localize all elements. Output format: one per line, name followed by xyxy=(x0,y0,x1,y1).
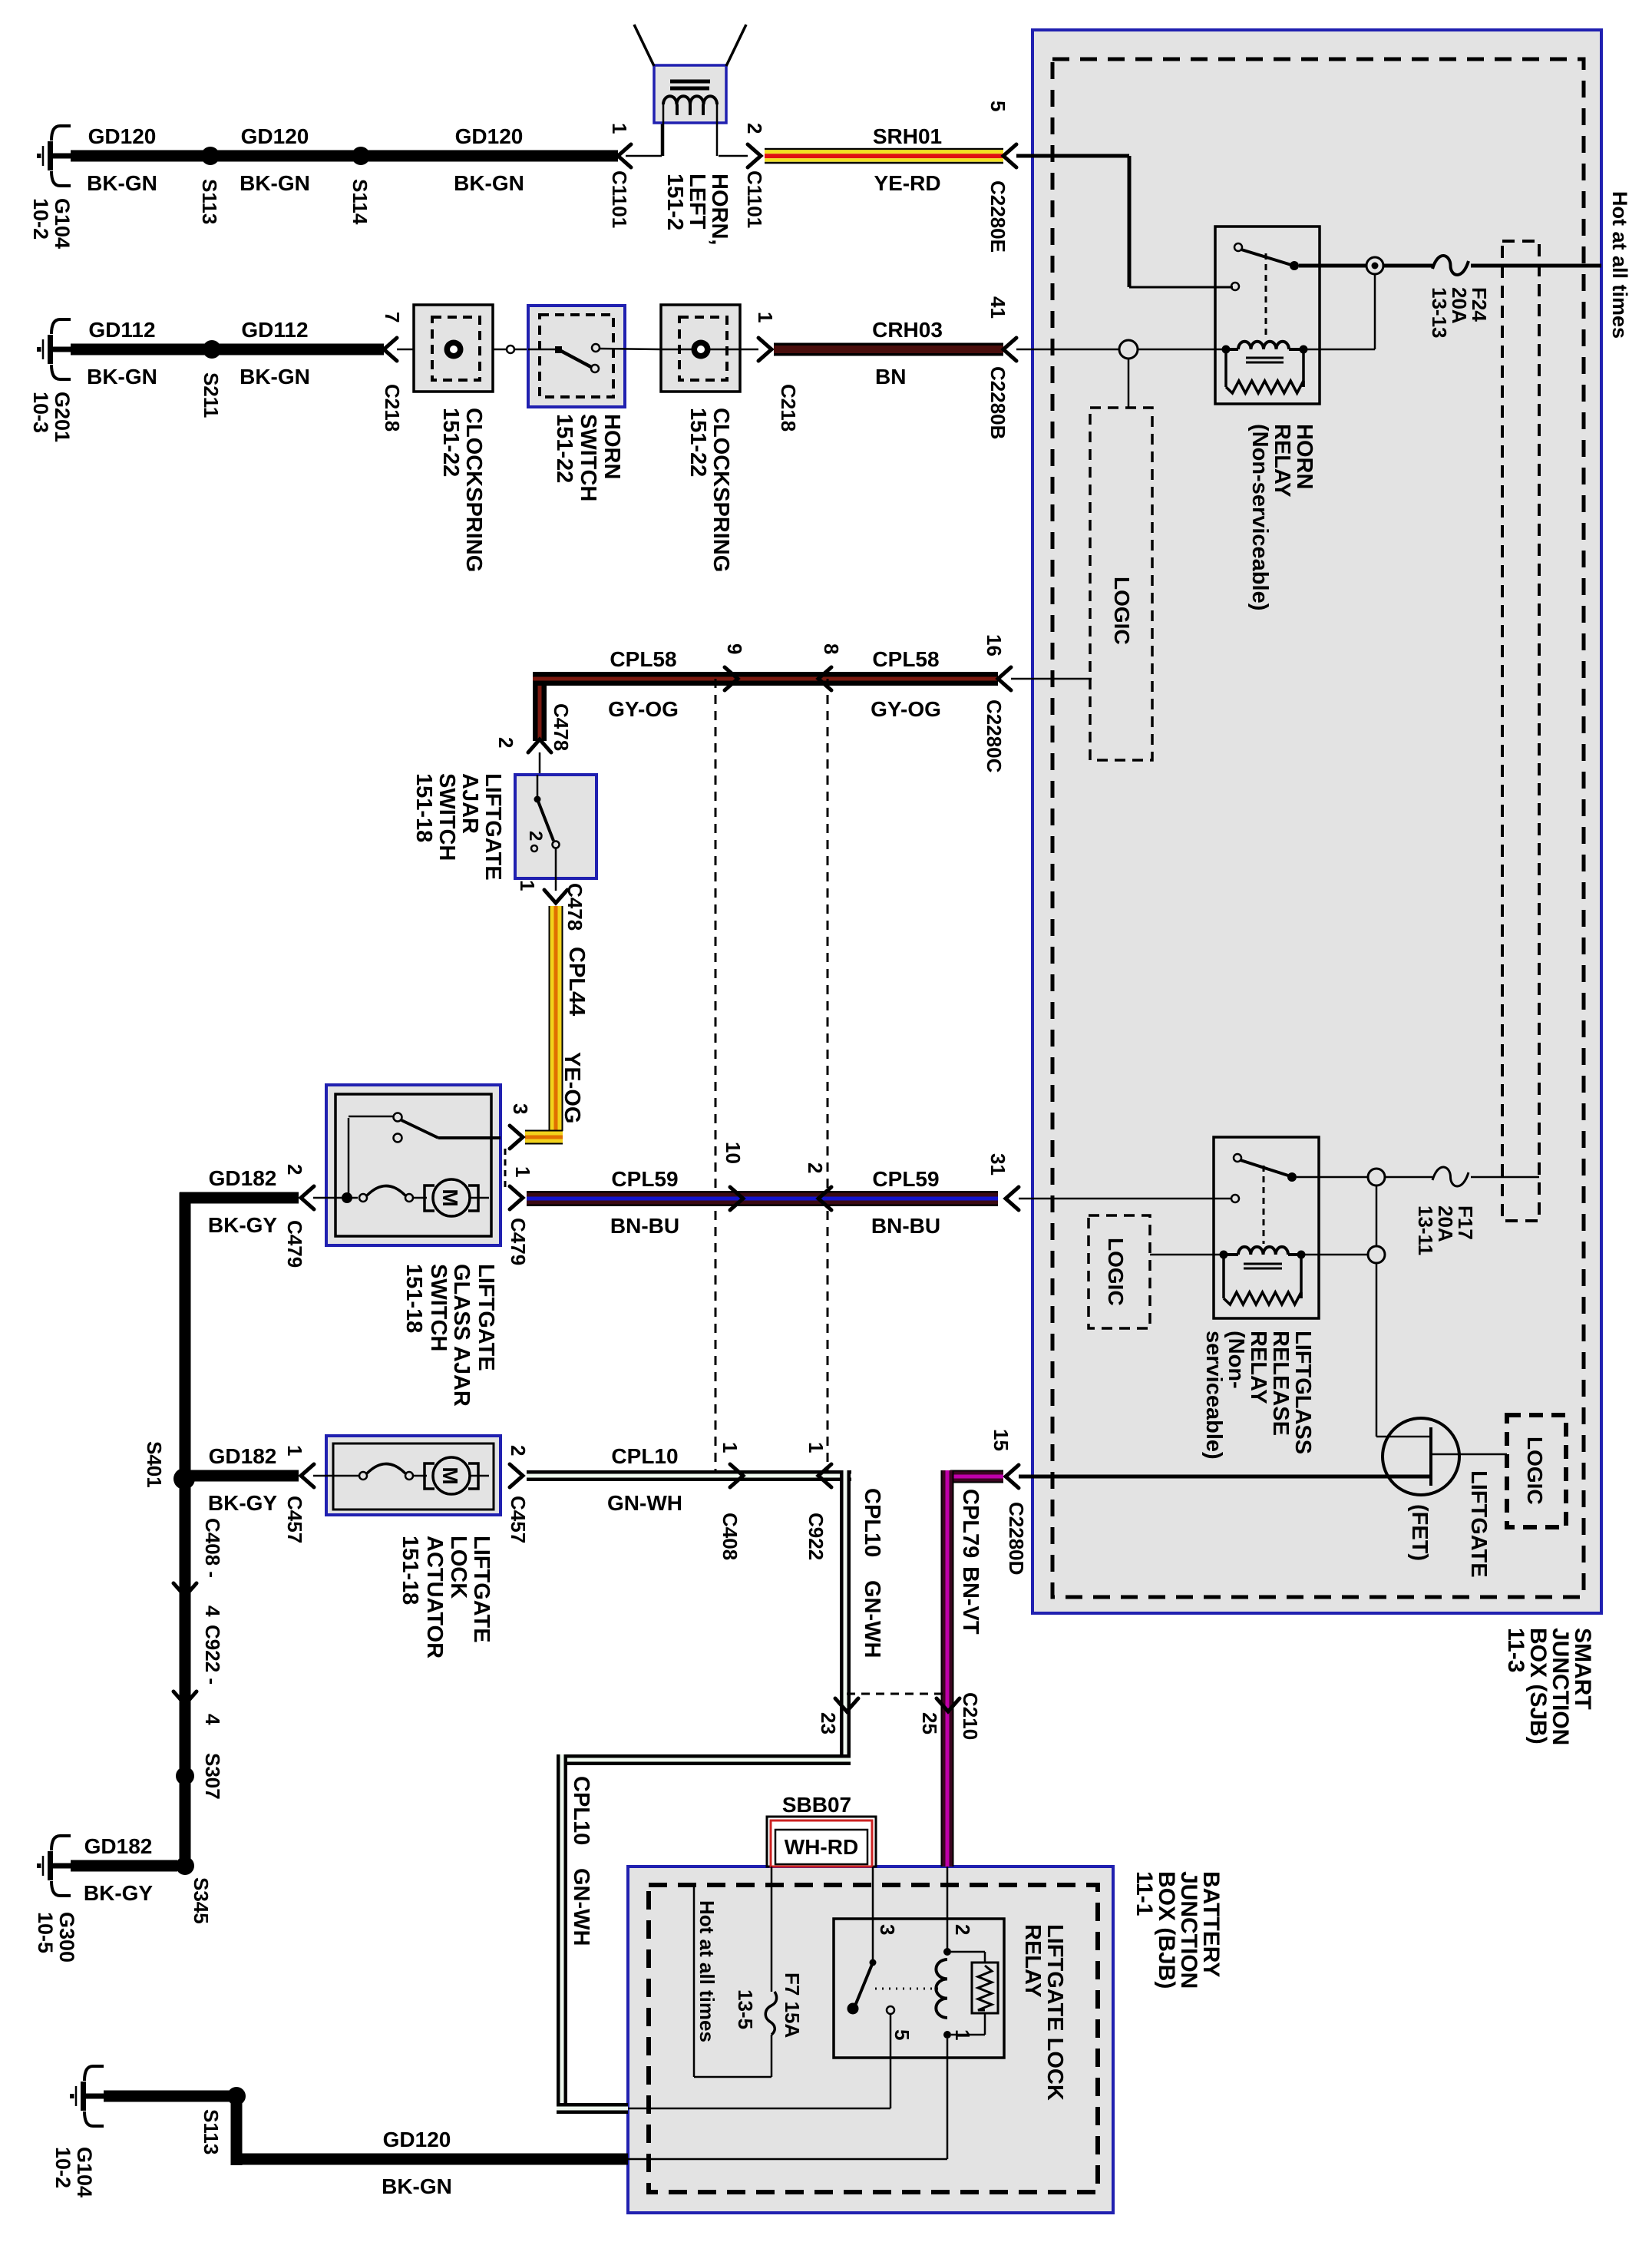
svg-text:9: 9 xyxy=(723,643,746,654)
wire CPL58 GY-OG segment 1 xyxy=(533,672,538,741)
svg-text:S113: S113 xyxy=(200,2109,223,2154)
svg-text:GD182: GD182 xyxy=(209,1444,277,1468)
svg-text:LOGIC: LOGIC xyxy=(1523,1437,1547,1505)
liftgate lock relay box xyxy=(834,1919,1004,2058)
svg-text:2: 2 xyxy=(283,1164,306,1175)
connector C2280 pin 31 xyxy=(1006,1187,1019,1210)
LOGIC box (FET) xyxy=(1507,1415,1566,1527)
svg-text:SRH01: SRH01 xyxy=(873,124,942,148)
Smart Junction Box (SJB) outline xyxy=(1032,30,1601,1613)
splice S113 (bottom) xyxy=(227,2087,246,2105)
svg-text:5: 5 xyxy=(986,101,1009,111)
svg-text:G201: G201 xyxy=(51,392,74,442)
svg-text:13-13: 13-13 xyxy=(1428,287,1451,339)
svg-text:1: 1 xyxy=(283,1445,306,1456)
svg-text:2: 2 xyxy=(951,1924,974,1935)
svg-text:CPL58: CPL58 xyxy=(610,647,676,671)
svg-text:S211: S211 xyxy=(200,372,223,418)
wire SRH01 YE-RD xyxy=(765,148,1003,150)
svg-text:2: 2 xyxy=(743,123,766,134)
wire GD182 BK-GY (liftglass) xyxy=(190,1192,299,1204)
liftglass release relay (non-serviceable) xyxy=(1214,1137,1319,1318)
svg-text:5: 5 xyxy=(890,2029,914,2040)
svg-text:Hot at all times: Hot at all times xyxy=(695,1900,719,2042)
svg-text:CPL10: CPL10 xyxy=(569,1776,593,1845)
svg-text:S345: S345 xyxy=(190,1877,213,1924)
svg-text:BK-GN: BK-GN xyxy=(382,2174,452,2198)
svg-text:15: 15 xyxy=(990,1429,1013,1451)
svg-text:GD120: GD120 xyxy=(383,2128,451,2151)
connector C2280E pin 5 xyxy=(1003,144,1016,167)
ground G104 (bottom) xyxy=(70,2066,104,2126)
svg-text:C457: C457 xyxy=(507,1496,530,1543)
svg-text:C457: C457 xyxy=(283,1496,306,1543)
connector C218 pin 1 xyxy=(758,338,771,361)
svg-text:S307: S307 xyxy=(201,1753,224,1800)
svg-text:RELAY: RELAY xyxy=(1270,424,1294,498)
svg-text:BK-GN: BK-GN xyxy=(240,365,310,389)
SJB inner dashed border xyxy=(1052,59,1584,1597)
svg-text:RELEASE: RELEASE xyxy=(1268,1331,1293,1436)
splice S114 xyxy=(352,147,370,165)
svg-text:(FET): (FET) xyxy=(1407,1504,1432,1561)
svg-text:1: 1 xyxy=(805,1442,828,1453)
connector C922 pin 4 (chain) xyxy=(173,1691,197,1705)
connector C479 pin 2 xyxy=(301,1186,314,1209)
svg-text:CLOCKSPRING: CLOCKSPRING xyxy=(709,408,733,572)
svg-text:LEFT: LEFT xyxy=(685,174,709,230)
svg-text:RELAY: RELAY xyxy=(1020,1924,1045,1998)
bullseye node xyxy=(1366,257,1383,274)
ground G104 (top left) xyxy=(37,126,71,186)
dashed connector line C922 xyxy=(827,679,829,1476)
svg-text:G104: G104 xyxy=(51,198,74,249)
svg-text:GN-WH: GN-WH xyxy=(569,1868,593,1946)
connector C479 pin 3 xyxy=(510,1126,523,1149)
wire into SJB to horn relay coil xyxy=(1016,349,1119,351)
BJB inner dashed border xyxy=(649,1885,1098,2192)
svg-text:(Non-serviceable): (Non-serviceable) xyxy=(1247,424,1272,610)
wire pin 1 to GD120 ground xyxy=(947,2039,949,2159)
svg-text:4: 4 xyxy=(201,1714,224,1725)
svg-text:151-2: 151-2 xyxy=(662,174,687,230)
svg-text:CPL44: CPL44 xyxy=(564,947,589,1016)
wire fuse to Hot at all times xyxy=(1471,264,1601,268)
wire GD120 BK-GN to BJB xyxy=(231,2091,243,2165)
svg-text:BN-BU: BN-BU xyxy=(610,1214,679,1238)
liftgate ajar switch 151-18 xyxy=(515,775,596,878)
svg-text:C408: C408 xyxy=(719,1513,742,1560)
fuse F17 20A 13-11 xyxy=(1432,1167,1469,1186)
svg-text:C2280D: C2280D xyxy=(1005,1502,1028,1575)
svg-text:GLASS AJAR: GLASS AJAR xyxy=(449,1264,474,1407)
SJB tall dashed rectangle xyxy=(1502,241,1539,1221)
svg-text:C2280E: C2280E xyxy=(986,180,1009,253)
wire into SJB to horn relay xyxy=(1016,154,1129,158)
svg-text:HORN: HORN xyxy=(1292,424,1317,489)
connector C2280D pin 15 xyxy=(1006,1465,1019,1488)
svg-text:BK-GY: BK-GY xyxy=(208,1213,278,1237)
svg-text:G300: G300 xyxy=(55,1912,78,1963)
svg-text:AJAR: AJAR xyxy=(458,773,482,834)
connector C1101 pin 2 xyxy=(748,144,761,167)
LOGIC box (liftglass) xyxy=(1089,1215,1150,1328)
junction circle xyxy=(507,346,514,353)
wire CRH03 BN xyxy=(774,343,1003,346)
clockspring 151-22 (left) xyxy=(414,305,493,392)
wire CPL79 BN-VT xyxy=(950,1470,1003,1472)
svg-text:LIFTGATE: LIFTGATE xyxy=(1466,1470,1491,1578)
connector C1101 pin 1 xyxy=(618,144,631,167)
svg-text:M: M xyxy=(438,1189,462,1206)
svg-text:Hot at all times: Hot at all times xyxy=(1608,191,1631,339)
clockspring 151-22 (right) xyxy=(661,305,740,392)
wire to S113 xyxy=(104,2091,236,2102)
wire GD182 vertical chain xyxy=(180,1479,191,1866)
svg-text:G104: G104 xyxy=(73,2147,96,2197)
svg-text:C210: C210 xyxy=(959,1692,982,1740)
svg-text:C1101: C1101 xyxy=(608,170,631,228)
svg-text:C1101: C1101 xyxy=(743,170,766,228)
svg-text:C2280C: C2280C xyxy=(983,699,1006,773)
svg-text:10-2: 10-2 xyxy=(29,198,52,240)
svg-text:CPL10: CPL10 xyxy=(611,1444,678,1468)
wire GD120 BK-GN segment 2 xyxy=(210,150,361,162)
Battery Junction Box (BJB) outline xyxy=(628,1867,1113,2213)
wire pin 5 to CPL10 xyxy=(890,2014,892,2108)
svg-text:LOGIC: LOGIC xyxy=(1110,577,1134,645)
svg-text:1: 1 xyxy=(511,1166,534,1177)
wire to horn xyxy=(626,155,662,157)
horn relay coil xyxy=(1222,346,1231,354)
svg-text:BN-BU: BN-BU xyxy=(871,1214,940,1238)
svg-text:C479: C479 xyxy=(507,1218,530,1265)
connector C479 pin 1 xyxy=(510,1186,523,1209)
svg-text:BK-GN: BK-GN xyxy=(87,171,157,195)
wire GD182 BK-GY (actuator) xyxy=(190,1470,299,1482)
svg-text:SWITCH: SWITCH xyxy=(434,773,459,861)
splice S401 xyxy=(173,1468,195,1490)
connector pin 2 xyxy=(818,1187,831,1210)
svg-text:8: 8 xyxy=(820,643,843,654)
svg-text:BN-VT: BN-VT xyxy=(958,1566,983,1635)
svg-text:C218: C218 xyxy=(777,384,800,432)
svg-text:LIFTGATE: LIFTGATE xyxy=(474,1264,498,1371)
horn relay (non-serviceable) xyxy=(1215,227,1320,404)
svg-text:CLOCKSPRING: CLOCKSPRING xyxy=(461,408,486,572)
connector C408 pin 1 xyxy=(730,1464,743,1487)
svg-text:GD120: GD120 xyxy=(455,124,524,148)
wire into SJB to liftglass relay xyxy=(1019,1198,1231,1200)
liftgate glass ajar switch 151-18 xyxy=(326,1085,501,1245)
connector C210 dashed xyxy=(847,1693,948,1695)
fuse F24 20A 13-13 xyxy=(1432,256,1469,275)
LOGIC box (horn) xyxy=(1090,408,1152,760)
node circle xyxy=(1119,340,1138,359)
wire GD120 BK-GN segment 3 xyxy=(361,150,618,162)
SBB07 WH-RD connector box xyxy=(767,1817,876,1867)
svg-text:11-1: 11-1 xyxy=(1132,1871,1157,1916)
connector C2280C pin 16 xyxy=(998,667,1011,690)
svg-text:7: 7 xyxy=(381,312,404,322)
svg-text:CPL59: CPL59 xyxy=(872,1167,939,1191)
svg-text:151-22: 151-22 xyxy=(686,408,710,477)
wire CPL10 GN-WH xyxy=(527,1470,851,1474)
svg-text:serviceable): serviceable) xyxy=(1201,1331,1226,1460)
splice S307 xyxy=(176,1767,194,1785)
svg-text:LIFTGATE: LIFTGATE xyxy=(481,773,505,881)
wire clockspring to horn switch xyxy=(493,349,507,351)
connector C457 pin 2 xyxy=(510,1464,523,1487)
svg-text:C408 -: C408 - xyxy=(201,1518,224,1578)
svg-text:31: 31 xyxy=(986,1153,1009,1176)
svg-text:C478: C478 xyxy=(550,703,573,751)
svg-text:BK-GN: BK-GN xyxy=(240,171,310,195)
wire relay to fuse F24 xyxy=(1299,264,1366,268)
svg-text:SWITCH: SWITCH xyxy=(426,1264,451,1351)
wire CPL59 BN-BU xyxy=(527,1191,998,1193)
connector pin 9 xyxy=(725,667,738,690)
svg-text:LOGIC: LOGIC xyxy=(1104,1238,1128,1306)
splice S211 xyxy=(203,340,221,359)
svg-text:16: 16 xyxy=(983,634,1006,656)
svg-text:2: 2 xyxy=(804,1162,827,1173)
wire GD120 BK-GN segment 1 xyxy=(71,150,210,162)
svg-text:GD112: GD112 xyxy=(88,318,155,342)
svg-text:151-22: 151-22 xyxy=(552,414,577,483)
wire SBB07 to relay pin 3 xyxy=(872,1867,874,1960)
svg-text:C479: C479 xyxy=(283,1220,306,1268)
wire relay to fuse F17 xyxy=(1297,1176,1368,1179)
svg-text:2: 2 xyxy=(525,831,546,841)
connector C408 pin 4 (chain) xyxy=(173,1583,197,1596)
splice S345 xyxy=(176,1857,194,1875)
svg-text:GN-WH: GN-WH xyxy=(860,1580,884,1658)
svg-text:WH-RD: WH-RD xyxy=(785,1835,858,1859)
svg-text:C922 -: C922 - xyxy=(201,1625,224,1685)
svg-text:(Non-: (Non- xyxy=(1224,1331,1248,1389)
svg-text:GD120: GD120 xyxy=(241,124,309,148)
ground G201 xyxy=(37,319,71,379)
relay resistor loop xyxy=(951,1951,985,1953)
connector C457 pin 1 xyxy=(301,1464,314,1487)
vertical GD182 wire xyxy=(180,1192,191,1479)
svg-text:RELAY: RELAY xyxy=(1246,1331,1270,1404)
svg-text:ACTUATOR: ACTUATOR xyxy=(422,1536,447,1658)
svg-text:YE-RD: YE-RD xyxy=(874,171,940,195)
svg-text:CPL58: CPL58 xyxy=(872,647,939,671)
svg-text:LIFTGATE: LIFTGATE xyxy=(469,1536,494,1643)
svg-text:GD182: GD182 xyxy=(209,1166,277,1190)
svg-text:SWITCH: SWITCH xyxy=(576,414,600,501)
svg-text:13-5: 13-5 xyxy=(734,1989,757,2029)
svg-text:11-3: 11-3 xyxy=(1503,1628,1528,1672)
svg-text:41: 41 xyxy=(986,296,1009,319)
svg-text:10-2: 10-2 xyxy=(51,2147,74,2188)
svg-text:1: 1 xyxy=(754,312,777,322)
liftgate lock actuator 151-18 xyxy=(326,1436,501,1515)
svg-text:C218: C218 xyxy=(381,384,404,432)
wire CPL44 YE-OG xyxy=(549,906,550,1131)
svg-text:HORN: HORN xyxy=(600,414,624,479)
svg-text:23: 23 xyxy=(817,1712,840,1734)
connector C478 pin 1 xyxy=(544,890,567,903)
svg-text:S113: S113 xyxy=(198,179,221,224)
connector C922 pin 1 xyxy=(818,1464,831,1487)
svg-text:151-18: 151-18 xyxy=(401,1264,426,1333)
svg-text:10-3: 10-3 xyxy=(29,392,52,433)
connector pin 8 xyxy=(818,667,831,690)
wire GD182 BK-GY (to G300) xyxy=(71,1860,177,1872)
svg-text:CRH03: CRH03 xyxy=(872,318,943,342)
horn switch 151-22 xyxy=(528,306,625,407)
svg-text:LIFTGLASS: LIFTGLASS xyxy=(1290,1331,1315,1454)
splice S113 xyxy=(201,147,220,165)
wire from horn to C1101 pin 2 xyxy=(719,155,748,157)
liftglass relay coil xyxy=(1220,1251,1228,1259)
svg-text:BK-GN: BK-GN xyxy=(454,171,524,195)
svg-text:CPL10: CPL10 xyxy=(860,1488,884,1557)
wire to LOGIC xyxy=(1011,678,1092,680)
svg-text:GY-OG: GY-OG xyxy=(608,697,679,721)
svg-text:GY-OG: GY-OG xyxy=(871,697,941,721)
connector C478 pin 2 xyxy=(528,739,551,752)
relay coil vertical xyxy=(947,1867,949,1950)
svg-text:2: 2 xyxy=(494,737,517,748)
svg-text:S114: S114 xyxy=(349,179,372,225)
wire 15 to FET xyxy=(1019,1475,1431,1479)
svg-text:151-18: 151-18 xyxy=(411,773,436,842)
wire GD112 BK-GN segment 2 xyxy=(212,344,384,355)
svg-text:F7 15A: F7 15A xyxy=(781,1972,804,2038)
svg-text:BN: BN xyxy=(875,365,906,389)
FET transistor (liftgate) xyxy=(1376,1263,1378,1437)
connector pin 10 xyxy=(730,1187,743,1210)
wire node to LOGIC xyxy=(1128,359,1130,408)
svg-text:10: 10 xyxy=(722,1142,745,1164)
svg-text:BK-GN: BK-GN xyxy=(87,365,157,389)
svg-text:151-18: 151-18 xyxy=(398,1536,422,1605)
svg-text:10-5: 10-5 xyxy=(34,1912,57,1953)
svg-text:BK-GY: BK-GY xyxy=(208,1491,278,1515)
svg-text:3: 3 xyxy=(509,1103,532,1114)
svg-text:LOCK: LOCK xyxy=(446,1536,471,1599)
svg-text:4: 4 xyxy=(201,1605,224,1617)
wire SBB07 through fuse F7 xyxy=(771,1867,773,1992)
horn left 151-2 xyxy=(654,65,726,123)
svg-text:CPL59: CPL59 xyxy=(611,1167,678,1191)
connector C2280B pin 41 xyxy=(1003,338,1016,361)
svg-text:HORN,: HORN, xyxy=(707,174,732,245)
connector C218 pin 7 xyxy=(384,338,397,361)
svg-text:3: 3 xyxy=(876,1924,899,1935)
svg-text:25: 25 xyxy=(918,1712,941,1734)
svg-text:GD120: GD120 xyxy=(88,124,157,148)
svg-text:GN-WH: GN-WH xyxy=(607,1491,682,1515)
svg-text:1: 1 xyxy=(516,880,539,891)
svg-text:M: M xyxy=(438,1467,462,1484)
svg-text:SBB07: SBB07 xyxy=(782,1793,851,1817)
svg-text:2: 2 xyxy=(507,1445,530,1456)
svg-text:LIFTGATE LOCK: LIFTGATE LOCK xyxy=(1042,1924,1067,2101)
svg-text:1: 1 xyxy=(719,1442,742,1453)
wire to clockspring xyxy=(397,349,414,351)
svg-text:BK-GY: BK-GY xyxy=(84,1881,154,1905)
svg-text:S401: S401 xyxy=(143,1441,166,1488)
svg-text:13-11: 13-11 xyxy=(1414,1205,1437,1255)
svg-text:GD182: GD182 xyxy=(84,1834,153,1858)
wire GD112 BK-GN segment 1 xyxy=(71,344,212,355)
dashed connector line C408 xyxy=(715,679,717,1476)
svg-text:CPL79: CPL79 xyxy=(958,1489,983,1558)
svg-text:YE-OG: YE-OG xyxy=(560,1052,584,1123)
ground G300 xyxy=(37,1836,71,1896)
svg-text:1: 1 xyxy=(608,123,631,134)
svg-text:C922: C922 xyxy=(805,1513,828,1560)
svg-text:GD112: GD112 xyxy=(241,318,308,342)
svg-text:C2280B: C2280B xyxy=(986,366,1009,439)
svg-text:151-22: 151-22 xyxy=(438,408,463,477)
switch mechanical dashed link xyxy=(504,1149,507,1189)
